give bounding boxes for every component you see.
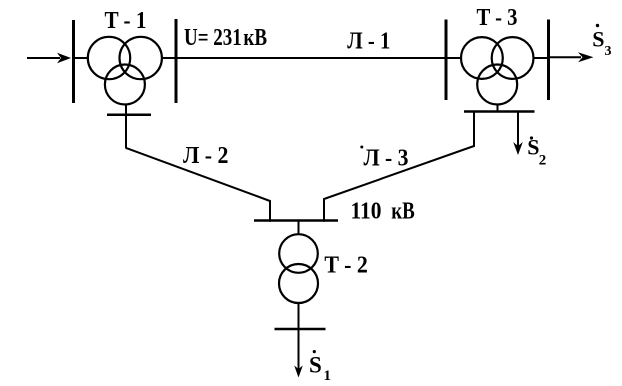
- svg-text:3: 3: [605, 44, 612, 59]
- svg-text:T - 2: T - 2: [324, 253, 368, 279]
- wire bus to T-1: [74, 57, 90, 59]
- bus right of T-1: [175, 19, 178, 103]
- svg-text:S: S: [309, 352, 322, 377]
- label S1: [309, 350, 331, 384]
- transformer T-2: [279, 234, 318, 303]
- wire T-1 to right bus: [161, 57, 176, 59]
- stem below T-1: [125, 104, 127, 149]
- svg-text:U= 231 кВ: U= 231 кВ: [184, 25, 267, 51]
- label L-3: [360, 146, 408, 172]
- bus below T-3: [464, 110, 535, 113]
- line L-2 diagonal: [126, 148, 270, 222]
- load arrow S2: [513, 112, 523, 156]
- svg-text:Л - 3: Л - 3: [364, 146, 409, 172]
- svg-text:S: S: [592, 27, 604, 52]
- load arrow S1 head: [294, 366, 303, 378]
- svg-text:S: S: [527, 135, 539, 160]
- stem below T-2: [298, 303, 300, 370]
- transformer T-3: [461, 37, 534, 104]
- tick bus below T-1: [107, 113, 151, 116]
- label S3: [592, 24, 611, 59]
- svg-text:Л - 2: Л - 2: [183, 143, 229, 169]
- tick bus below T-2: [275, 328, 326, 331]
- line L-1: [176, 57, 446, 59]
- transformer T-1: [88, 37, 162, 105]
- load arrow S3: [549, 52, 594, 62]
- svg-text:Л - 1: Л - 1: [347, 29, 390, 55]
- svg-text:110: 110: [351, 199, 382, 225]
- svg-text:2: 2: [539, 153, 547, 169]
- svg-text:кВ: кВ: [391, 199, 415, 225]
- svg-text:T - 3: T - 3: [477, 5, 518, 31]
- wire bus to T-3: [446, 57, 462, 59]
- bus left of T-3: [445, 20, 448, 101]
- stem below T-3: [497, 104, 499, 112]
- svg-text:T - 1: T - 1: [105, 8, 147, 34]
- bus right of T-3: [547, 20, 550, 101]
- label S2: [527, 135, 546, 169]
- line L-3 diagonal: [324, 111, 474, 222]
- bus 110kV: [254, 219, 338, 222]
- bus left of T-1: [72, 20, 75, 103]
- wire T-3 to right bus: [533, 57, 549, 59]
- svg-text:1: 1: [324, 368, 332, 384]
- stem bus to T-2: [298, 221, 300, 236]
- source arrow into bus 1: [27, 53, 71, 63]
